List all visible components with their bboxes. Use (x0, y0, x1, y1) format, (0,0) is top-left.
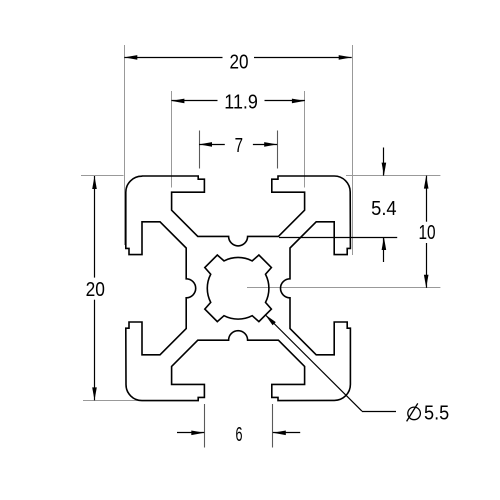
svg-text:7: 7 (235, 135, 243, 157)
svg-text:20: 20 (230, 51, 249, 73)
svg-text:11.9: 11.9 (224, 91, 258, 113)
svg-text:5.5: 5.5 (424, 402, 449, 424)
svg-text:20: 20 (86, 279, 105, 301)
svg-text:6: 6 (236, 424, 243, 446)
svg-text:5.4: 5.4 (371, 198, 397, 220)
svg-text:10: 10 (418, 222, 435, 244)
